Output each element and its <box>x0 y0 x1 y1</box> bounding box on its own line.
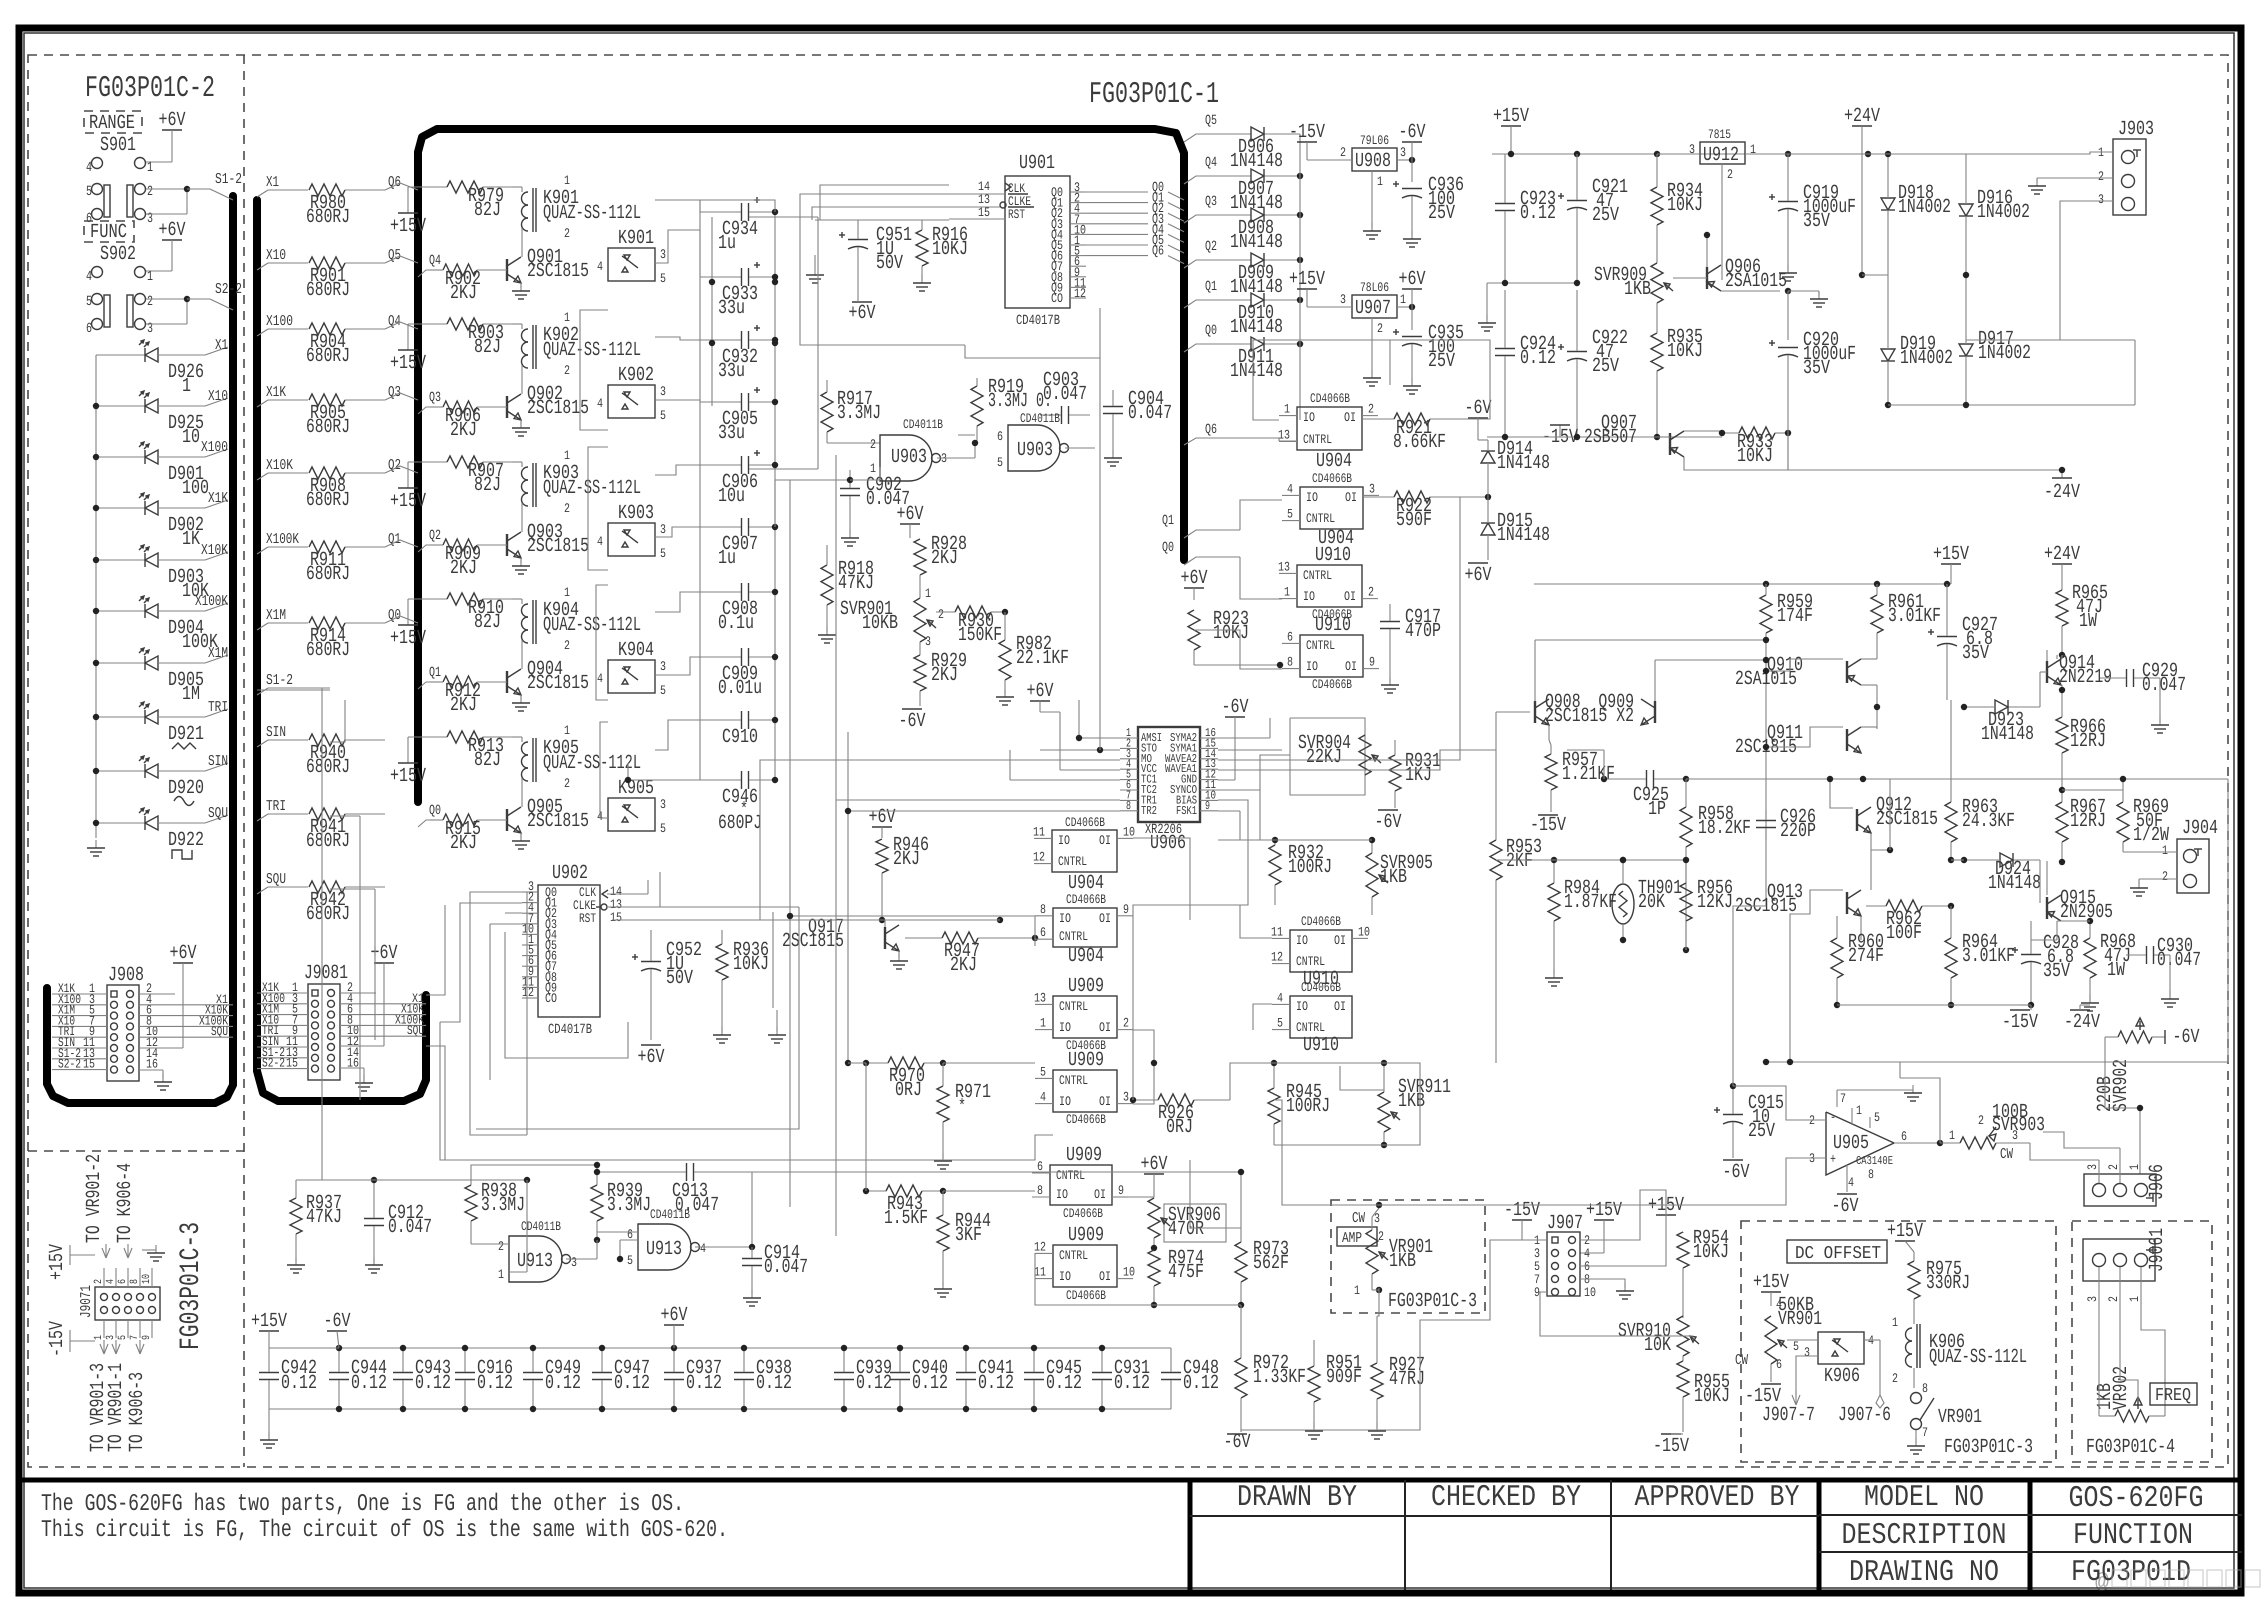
svg-text:2KJ: 2KJ <box>450 419 477 442</box>
wire q913 base <box>1787 890 1843 1065</box>
svg-text:+6V: +6V <box>1181 567 1208 590</box>
svg-text:2KF: 2KF <box>1506 850 1533 873</box>
svg-text:3.3MJ: 3.3MJ <box>837 402 881 425</box>
resistor R963 <box>1945 700 2015 863</box>
svg-text:10u: 10u <box>718 485 745 508</box>
svg-text:CD4066B: CD4066B <box>1063 1206 1103 1221</box>
svg-text:0.12: 0.12 <box>545 1372 581 1395</box>
slide switch S2 contacts <box>86 294 233 338</box>
wire xr fsk <box>1218 811 1240 840</box>
wire q910 q911 bases <box>1763 659 1843 750</box>
svg-text:CD4066B: CD4066B <box>1312 471 1352 486</box>
svg-text:S2-2: S2-2 <box>215 281 242 298</box>
wire bus h1 <box>526 892 528 1135</box>
analog switch U909a <box>1034 975 1133 1053</box>
resistor R965 <box>2056 582 2108 658</box>
IC U901 CD4017B <box>978 152 1086 329</box>
svg-text:+15V: +15V <box>46 1244 69 1280</box>
wire left col inputs <box>848 1062 866 1064</box>
svg-text:9: 9 <box>1369 655 1375 670</box>
wire u904d pin8 <box>787 913 1035 919</box>
svg-text:+15V: +15V <box>251 1310 287 1333</box>
relay contact K902 <box>597 364 666 423</box>
diode D924 <box>1951 853 2041 895</box>
ground (C951 left) <box>806 255 824 283</box>
svg-text:Q1: Q1 <box>388 531 401 548</box>
svg-text:1K: 1K <box>182 528 200 551</box>
wire -24 node <box>1788 467 2065 478</box>
wire bus h3 <box>426 905 445 995</box>
wire sw bus d <box>1194 630 1282 669</box>
resistor R961 <box>1871 584 1941 656</box>
svg-text:12: 12 <box>1074 286 1086 301</box>
svg-text:TO VR901-1: TO VR901-1 <box>105 1363 128 1452</box>
wire amp in <box>1274 1100 1379 1316</box>
svg-text:909F: 909F <box>1326 1366 1362 1389</box>
svg-text:9: 9 <box>1123 902 1129 917</box>
svg-text:100: 100 <box>182 477 209 500</box>
resistor R909 <box>430 539 507 580</box>
svg-text:82J: 82J <box>474 199 501 222</box>
resistor R969 <box>2062 790 2169 852</box>
wire-break arrows (J9071 top) <box>102 1244 132 1258</box>
svg-text:3: 3 <box>660 797 666 812</box>
svg-text:3: 3 <box>1689 142 1695 157</box>
svg-text:CO: CO <box>545 991 557 1006</box>
relay contact K906 (DC) <box>1787 1332 1880 1388</box>
svg-text:16: 16 <box>146 1057 158 1072</box>
resistor R928 <box>914 533 967 575</box>
resistor R945 <box>1268 1060 1330 1145</box>
svg-text:D920: D920 <box>168 777 204 800</box>
svg-text:CNTRL: CNTRL <box>1059 929 1088 944</box>
svg-text:X10: X10 <box>266 247 286 264</box>
resistor R947 <box>905 932 1038 977</box>
svg-text:Q3: Q3 <box>429 390 441 406</box>
resistor R901 row <box>257 247 418 302</box>
ground (J903 pin2) <box>2028 178 2113 194</box>
svg-text:0.12: 0.12 <box>978 1372 1014 1395</box>
svg-text:10: 10 <box>1358 924 1370 939</box>
wire bus v1 <box>789 480 791 1207</box>
amp mid rail <box>1567 750 1890 782</box>
pot SVR902 220B <box>2094 1018 2165 1174</box>
svg-text:2: 2 <box>93 1279 105 1284</box>
resistor R936 <box>713 930 769 1043</box>
svg-text:11: 11 <box>1271 924 1283 939</box>
svg-text:5: 5 <box>660 683 666 698</box>
svg-text:4: 4 <box>1277 990 1283 1005</box>
label S2-2 (top) <box>215 281 242 298</box>
svg-text:274F: 274F <box>1848 945 1884 968</box>
svg-text:+24V: +24V <box>1844 105 1880 128</box>
thick outline FG03P01C-1 block <box>418 129 1184 802</box>
label J907-6 <box>1838 1404 1891 1427</box>
resistor R906 <box>430 401 507 442</box>
svg-text:2KJ: 2KJ <box>450 832 477 855</box>
wire bus h2 <box>440 1022 1053 1160</box>
resistor R946 <box>876 834 929 923</box>
svg-text:Q0: Q0 <box>388 607 401 624</box>
svg-text:Q0: Q0 <box>1205 323 1217 339</box>
analog switch U909c <box>1032 1144 1128 1221</box>
label DRAWN BY <box>1237 1481 1357 1515</box>
capacitor C921 <box>1558 154 1628 283</box>
svg-text:0.12: 0.12 <box>686 1372 722 1395</box>
svg-text:J907: J907 <box>1547 1212 1583 1235</box>
svg-text:2: 2 <box>870 437 876 452</box>
svg-text:FG03P01C-4: FG03P01C-4 <box>2086 1436 2175 1459</box>
wire relay contact out k3 <box>655 527 700 537</box>
svg-text:U903: U903 <box>1017 439 1053 462</box>
LED D922 <box>93 805 228 859</box>
resistor R911 row <box>257 531 418 586</box>
svg-text:K903: K903 <box>618 502 654 525</box>
svg-text:1N4002: 1N4002 <box>1978 342 2031 365</box>
wire +24 to J903 <box>1862 152 2113 154</box>
svg-text:TO K906-4: TO K906-4 <box>114 1163 137 1243</box>
capacitor C932 <box>700 325 778 383</box>
wire u910c d wires <box>1240 905 1272 1030</box>
ground (LED ladder) <box>87 840 105 856</box>
svg-text:CNTRL: CNTRL <box>1059 1073 1088 1088</box>
label DRAWING NO <box>1849 1556 1999 1590</box>
transistor pair Q908 Q909 <box>1535 637 1769 745</box>
svg-text:2SB507: 2SB507 <box>1584 426 1637 449</box>
power -24V (supply) <box>2044 478 2080 504</box>
svg-text:3: 3 <box>660 384 666 399</box>
svg-text:S902: S902 <box>100 243 136 266</box>
capacitor C919 <box>1769 154 1856 270</box>
net label Q3 (driver) <box>418 390 443 414</box>
transistor Q902 <box>507 382 589 436</box>
label J907-7 <box>1762 1404 1815 1427</box>
svg-text:+6V: +6V <box>1399 268 1426 291</box>
svg-text:470R: 470R <box>1168 1218 1204 1241</box>
svg-text:IO: IO <box>1306 490 1318 505</box>
svg-text:J904: J904 <box>2182 817 2218 840</box>
resistor R970 <box>863 1057 1035 1102</box>
svg-text:0.047: 0.047 <box>2157 949 2201 972</box>
resistor R908 row <box>257 457 418 512</box>
wire relay contact bus 5 <box>655 465 700 475</box>
wire sw u909 outs <box>1133 1030 1157 1104</box>
wire K906-3 down arrow <box>1792 1356 1818 1405</box>
svg-text:+6V: +6V <box>1465 564 1492 587</box>
resistor R921 <box>1362 413 1460 454</box>
svg-text:U909: U909 <box>1068 975 1104 998</box>
svg-text:GOS-620FG: GOS-620FG <box>2069 1482 2204 1516</box>
power -15V (J907) <box>1504 1199 1547 1240</box>
LED D905 <box>93 645 228 706</box>
ground (C919) <box>1779 265 1797 281</box>
thick bus outline left (around J908) <box>47 196 233 1103</box>
svg-text:20K: 20K <box>1638 891 1665 914</box>
svg-text:U905: U905 <box>1833 1132 1869 1155</box>
svg-text:Q6: Q6 <box>1205 422 1217 438</box>
svg-text:K904: K904 <box>618 639 654 662</box>
transistor Q911 (2SC1815) <box>1735 704 1880 759</box>
svg-text:6: 6 <box>1287 629 1293 644</box>
svg-text:470P: 470P <box>1405 620 1441 643</box>
svg-text:33u: 33u <box>718 360 745 383</box>
resistor R905 row <box>257 384 418 439</box>
svg-text:FREQ: FREQ <box>2155 1386 2191 1406</box>
capacitor C929 <box>2100 660 2186 733</box>
capacitor C922 <box>1558 290 1628 437</box>
svg-text:Q2: Q2 <box>429 528 441 544</box>
svg-text:-: - <box>1830 1110 1836 1126</box>
relay coil K903 <box>512 448 641 520</box>
svg-text:-6V: -6V <box>1832 1195 1859 1218</box>
svg-text:K902: K902 <box>618 364 654 387</box>
svg-text:3.3MJ: 3.3MJ <box>481 1194 525 1217</box>
wire SVR910 wiper <box>1540 1292 1693 1336</box>
svg-text:5: 5 <box>1874 1110 1880 1125</box>
relay coil K901 <box>512 173 641 245</box>
svg-text:2: 2 <box>2106 1164 2121 1170</box>
svg-text:CD4017B: CD4017B <box>1016 313 1060 329</box>
svg-text:S1-2: S1-2 <box>266 672 293 689</box>
wire xr bias <box>1133 800 1248 1100</box>
svg-text:3.01KF: 3.01KF <box>1962 945 2015 968</box>
svg-text:11: 11 <box>1034 1265 1046 1280</box>
resistor R934 <box>1651 154 1703 263</box>
svg-text:U902: U902 <box>552 862 588 885</box>
svg-text:4: 4 <box>105 1279 117 1284</box>
resistor R954 <box>1677 1227 1729 1318</box>
wire u905 in3 <box>1379 1158 1806 1205</box>
svg-text:Q5: Q5 <box>388 247 401 264</box>
svg-text:OI: OI <box>1099 1020 1111 1035</box>
svg-text:0.12: 0.12 <box>415 1372 451 1395</box>
svg-text:5: 5 <box>997 455 1003 470</box>
svg-text:680PJ: 680PJ <box>718 812 762 835</box>
resistor R972 <box>1235 1305 1306 1432</box>
svg-text:2SC1815: 2SC1815 <box>1876 808 1938 831</box>
wire amp feedback <box>1889 779 1891 850</box>
svg-text:Q4: Q4 <box>388 313 401 330</box>
svg-text:13: 13 <box>1034 990 1046 1005</box>
svg-text:1.33KF: 1.33KF <box>1253 1366 1306 1389</box>
wire box U901 b <box>812 207 949 220</box>
svg-text:J908: J908 <box>108 964 144 987</box>
power -6V (C915) <box>1723 1160 1750 1184</box>
net Q1 wire <box>1162 513 1240 538</box>
resistor R944 <box>934 1191 991 1297</box>
power -15V rotated (J9071) <box>46 1321 95 1357</box>
svg-text:SVR902: SVR902 <box>2110 1059 2133 1112</box>
wire relay contact bus 4 <box>655 400 700 402</box>
svg-text:3: 3 <box>147 321 153 337</box>
svg-text:4: 4 <box>597 259 603 274</box>
wire waveform bus c <box>1390 340 1490 419</box>
transistor Q905 <box>507 795 589 849</box>
wire xr amsi <box>1076 700 1120 741</box>
svg-text:IO: IO <box>1059 1020 1071 1035</box>
svg-text:2: 2 <box>564 776 570 791</box>
capacitor C931 <box>1092 1345 1150 1412</box>
svg-text:+6V: +6V <box>661 1304 688 1327</box>
svg-text:X10K: X10K <box>266 457 293 474</box>
wire cap bus to U903 <box>775 480 790 527</box>
svg-text:Q1: Q1 <box>1162 513 1174 529</box>
svg-text:10: 10 <box>141 1274 153 1284</box>
svg-text:0.12: 0.12 <box>281 1372 317 1395</box>
svg-text:OI: OI <box>1345 490 1357 505</box>
svg-text:DC OFFSET: DC OFFSET <box>1795 1244 1881 1264</box>
slide switch S1 contacts <box>86 184 233 228</box>
svg-text:IO: IO <box>1059 1094 1071 1109</box>
svg-text:680RJ: 680RJ <box>306 345 350 368</box>
capacitor C928 <box>2012 921 2079 1008</box>
resistor R973 <box>1235 1228 1289 1308</box>
power +6V (C937) <box>661 1304 688 1348</box>
svg-text:0.12: 0.12 <box>912 1372 948 1395</box>
svg-text:12RJ: 12RJ <box>2070 810 2106 833</box>
capacitor C920 <box>1769 329 1856 470</box>
decoupling top bus <box>339 1347 1171 1349</box>
title col line 4 <box>1817 1480 1822 1590</box>
svg-text:3: 3 <box>925 634 931 649</box>
svg-text:25V: 25V <box>1592 355 1619 378</box>
svg-text:OI: OI <box>1334 933 1346 948</box>
svg-text:12: 12 <box>1271 950 1283 965</box>
svg-text:6: 6 <box>1040 925 1046 940</box>
capacitor C917 <box>1380 604 1441 693</box>
wire sw bus a <box>1253 340 1390 420</box>
resistor R929 <box>914 650 967 706</box>
capacitor C905 <box>700 387 778 445</box>
svg-text:Q6: Q6 <box>388 174 401 191</box>
svg-text:4: 4 <box>597 534 603 549</box>
svg-text:13: 13 <box>1278 427 1290 442</box>
resistor R980 row <box>257 174 418 229</box>
wire box U902 <box>505 932 628 1058</box>
svg-text:QUAZ-SS-112L: QUAZ-SS-112L <box>543 202 641 225</box>
svg-text:IO: IO <box>1059 911 1071 926</box>
svg-text:TRI: TRI <box>266 798 286 815</box>
svg-text:1: 1 <box>1040 1016 1046 1031</box>
svg-text:3: 3 <box>1340 292 1346 307</box>
power -6V (R972) <box>1224 1431 1251 1454</box>
wire waveform bus b <box>1218 497 1460 760</box>
relay contact K903 <box>597 502 666 561</box>
svg-text:C910: C910 <box>722 726 758 749</box>
svg-text:IO: IO <box>1303 410 1315 425</box>
svg-text:0.12: 0.12 <box>351 1372 387 1395</box>
svg-text:Q6: Q6 <box>1152 244 1164 260</box>
LED D926 <box>96 337 228 398</box>
resistor R955 <box>1677 1361 1730 1432</box>
svg-text:2: 2 <box>1368 402 1374 417</box>
svg-text:FG03P01C-3: FG03P01C-3 <box>1944 1436 2033 1459</box>
svg-text:50V: 50V <box>666 967 693 990</box>
svg-text:Q1: Q1 <box>1205 279 1217 295</box>
svg-text:2: 2 <box>2106 1296 2121 1302</box>
dashed box DC OFFSET <box>1741 1221 2056 1462</box>
svg-text:150KF: 150KF <box>958 624 1002 647</box>
svg-text:3.01KF: 3.01KF <box>1888 605 1941 628</box>
wire s1-2 drop <box>321 688 323 1180</box>
svg-text:-6V: -6V <box>1375 811 1402 834</box>
svg-text:+15V: +15V <box>390 352 426 375</box>
label CW (DC offset) <box>1735 1352 1748 1369</box>
svg-text:33u: 33u <box>718 297 745 320</box>
svg-text:RANGE: RANGE <box>89 112 135 135</box>
capacitor C923 <box>1495 154 1556 283</box>
svg-text:3: 3 <box>147 211 153 227</box>
svg-text:82J: 82J <box>474 749 501 772</box>
svg-text:U909: U909 <box>1066 1144 1102 1167</box>
svg-text:Q0: Q0 <box>429 803 441 819</box>
amp bottom rail <box>1837 1005 2031 1010</box>
resistor S1-2 row <box>257 672 330 695</box>
RANGE dashed box <box>84 111 142 135</box>
svg-text:2: 2 <box>147 184 153 200</box>
label FG03P01D <box>2071 1556 2191 1590</box>
svg-text:3: 3 <box>660 522 666 537</box>
pot SVR905 <box>1366 837 1433 915</box>
transistor Q912 (2SC1815) <box>1857 794 1938 853</box>
resistor R960 <box>1831 916 1884 1008</box>
svg-text:VR901: VR901 <box>1778 1308 1822 1331</box>
svg-text:5: 5 <box>660 821 666 836</box>
svg-text:2: 2 <box>1892 1371 1898 1386</box>
svg-text:U903: U903 <box>891 446 927 469</box>
svg-text:TRI: TRI <box>208 699 228 716</box>
svg-text:+15V: +15V <box>1933 543 1969 566</box>
relay contact K905 <box>597 777 666 836</box>
diode D923 <box>1961 700 2040 746</box>
svg-text:MODEL NO: MODEL NO <box>1864 1481 1984 1515</box>
capacitor C910 <box>700 711 778 749</box>
svg-text:1: 1 <box>1284 585 1290 600</box>
svg-text:0RJ: 0RJ <box>895 1079 922 1102</box>
wire R937 top rail <box>296 1177 530 1183</box>
svg-text:TR2: TR2 <box>1141 804 1157 818</box>
svg-text:590F: 590F <box>1396 509 1432 532</box>
svg-text:Q0: Q0 <box>1162 540 1174 556</box>
svg-text:3: 3 <box>2085 1296 2100 1302</box>
switch S901 <box>86 134 153 176</box>
resistor R933 <box>1719 427 1791 468</box>
LED D925 <box>93 388 228 449</box>
svg-text:5: 5 <box>1040 1064 1046 1079</box>
svg-text:3: 3 <box>571 1255 577 1270</box>
svg-text:220P: 220P <box>1780 820 1816 843</box>
power -15V (R957) <box>1530 814 1566 837</box>
svg-text:1u: 1u <box>718 547 736 570</box>
svg-text:12RJ: 12RJ <box>2070 730 2106 753</box>
svg-text:2KJ: 2KJ <box>893 848 920 871</box>
dashed divider FG03P01C-2 column <box>243 55 245 1467</box>
svg-text:FG03P01C-3: FG03P01C-3 <box>176 1222 207 1350</box>
svg-text:X1: X1 <box>215 337 228 354</box>
svg-text:5: 5 <box>627 1253 633 1268</box>
label FG03P01C-3 (AMP box) <box>1388 1290 1477 1313</box>
svg-text:1KB: 1KB <box>1624 278 1651 301</box>
capacitor C904 <box>1103 388 1172 466</box>
wire U901 Q0 <box>1086 180 1184 200</box>
wire U902 q wires <box>490 913 522 1080</box>
wire U902 out bus2 <box>440 903 522 1022</box>
svg-text:1N4002: 1N4002 <box>1898 196 1951 219</box>
resistor R930 <box>936 606 1008 647</box>
svg-text:4: 4 <box>1287 481 1293 496</box>
svg-text:IO: IO <box>1303 589 1315 604</box>
svg-text:X1K: X1K <box>208 490 228 507</box>
